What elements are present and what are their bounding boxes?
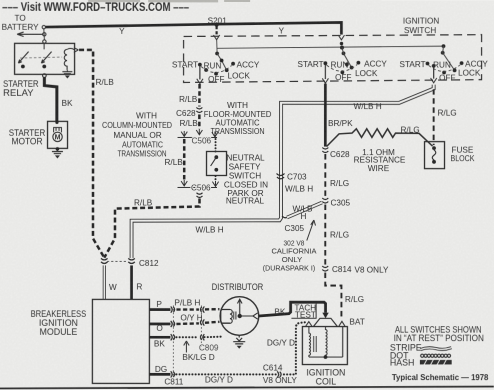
switch 2 START contact dot [323, 61, 327, 65]
C506 top bar left arrow [181, 131, 187, 136]
feed rail linking switch pivots [217, 46, 443, 48]
wire hash stub S201 down to switch [216, 26, 218, 35]
neutral safety switch box [207, 151, 227, 175]
arrow down into coil tower [322, 313, 328, 319]
switch 1 RUN contact dot [204, 68, 208, 72]
starter motor terminal dot [55, 121, 58, 124]
fuse bottom terminal dot [432, 160, 436, 164]
wire R/LG dashed center chain below C628 [324, 154, 326, 196]
connector C811 dotted vertical [172, 305, 174, 376]
pickup core marks [234, 311, 236, 319]
pointer arrow from California note to diagonal [307, 220, 316, 241]
V-merge chevrons at bottom of R/LB wires [101, 258, 108, 263]
switch section 1: stem from arrow to pivot [216, 40, 218, 54]
pickup winding bumps [230, 309, 232, 323]
starter motor brush bracket [54, 127, 62, 132]
switch 1 LOCK contact dot [225, 68, 229, 72]
switch 3 lever mid dot [441, 51, 445, 55]
fuse element squiggle [432, 150, 436, 160]
switch 2 OFF contact dot [340, 70, 344, 74]
switch 1 OFF contact dot [214, 72, 218, 76]
starter motor ground [52, 150, 63, 154]
wire BK/LG D dotted to distributor [176, 336, 223, 339]
dashed tie line to C812 [107, 260, 128, 262]
starter relay contact dot 1 [21, 65, 25, 69]
switch 3 output wire and arrow [433, 68, 435, 79]
switch 2 lever mid dot [342, 51, 346, 55]
coil right terminal triangle BAT [339, 321, 345, 326]
battery terminal circle lower [43, 40, 46, 43]
switch 3 LOCK contact dot [453, 68, 457, 72]
starter relay contact lever 2 [41, 52, 51, 63]
starter motor box [48, 121, 68, 148]
starter relay box [15, 43, 75, 74]
connector C628 chevrons on switch1 chain [196, 107, 202, 112]
switch 3 RUN contact dot [432, 64, 436, 68]
wire R/LB hash below switch 1 [198, 84, 201, 107]
switch section 3: pivot dot [442, 44, 446, 48]
wire R/LG dashed jog to ignition coil BAT [325, 273, 341, 320]
switch 1 detent arc dashed [201, 65, 232, 72]
wire dot pattern below NSS [215, 176, 217, 181]
starter relay coil ground [62, 70, 72, 74]
switch 2 pivot dot [340, 46, 344, 50]
breakerless ignition module box [92, 299, 149, 383]
connector chevrons below bottom bar [196, 193, 202, 198]
connector C305 chevrons on center chain [322, 198, 328, 203]
faint cut-off scan text at very top [88, 0, 250, 2]
starter motor M circle [53, 132, 62, 141]
starter motor bottom dot [56, 147, 60, 151]
switch section 2: dotted stem [340, 42, 343, 45]
starter relay contact lever 1 [18, 52, 28, 63]
switch 3 START contact dot [426, 62, 430, 66]
short link between terminals [43, 29, 46, 40]
coil bottom junction dot [324, 355, 328, 359]
starter relay linkage dashed [20, 57, 62, 58]
switch 3 ACCY contact dot [460, 61, 464, 65]
switch 3 detent arc dashed [429, 65, 461, 71]
arrow to battery (pointing left) [17, 32, 43, 36]
switch 3 OFF contact dot [442, 71, 446, 75]
wire R/LB hash from relay to merge: chevron at relay, horizontal, vertical [79, 50, 104, 258]
switch 1 output wire and arrow [199, 66, 201, 79]
neutral safety switch top dot [214, 155, 218, 159]
wire O/Y H hash to distributor [176, 322, 219, 324]
fuse block box [425, 142, 445, 169]
wire R/LG dashed to C814 [324, 205, 326, 265]
switch 3 lever [443, 46, 455, 70]
neutral safety switch bottom dot [214, 168, 218, 172]
splice S201 junction dot [214, 22, 218, 26]
connector C809 dotted vertical [200, 305, 202, 352]
C506 top bar right arrow [212, 131, 218, 136]
starter relay feed stub [43, 44, 45, 50]
starter relay contact dot 2 [42, 65, 46, 69]
ignition switch dashed box [184, 34, 482, 82]
wire DG/Y D dotted bottom run [176, 322, 305, 374]
wire R/LB left prong below top bar [183, 139, 186, 179]
reluctor line to right with arrowhead [242, 313, 258, 319]
wire R/LB hash to C506 [198, 114, 201, 129]
wire BK thick distributor to coil circuit [259, 302, 326, 316]
starter relay coil winding [64, 49, 67, 70]
switch 2 output wire and arrow [324, 65, 326, 79]
arrow into ignition switch section 2 [338, 35, 344, 40]
wire R thick down to module [130, 265, 133, 298]
resistance wire lead and zigzag [327, 129, 433, 147]
bottom rule [0, 386, 494, 389]
distributor circle [220, 297, 259, 336]
wire R/LB from C506 down and left to merge [104, 198, 199, 257]
TACH TEST box [291, 303, 316, 318]
distributor ground [233, 335, 245, 344]
coil bottom bus [309, 356, 343, 358]
wire BK relay to starter motor [44, 77, 57, 121]
wire dot pattern to neutral safety switch [215, 139, 217, 151]
wire Y thick from battery to ignition switch [46, 22, 342, 34]
arrow into C506 bottom bar right [212, 181, 218, 186]
distributor armature center dot [238, 314, 242, 318]
switch 1 lever dot [220, 59, 224, 63]
arrow into ignition switch section 1 [214, 35, 220, 40]
distributor shaft arrow up [237, 299, 242, 314]
coil secondary winding center [325, 326, 327, 357]
starter relay bottom terminal circle [43, 74, 47, 78]
switch 2 detent arc dashed [327, 65, 358, 72]
coil right lead from BAT [342, 326, 344, 357]
coil primary winding left [309, 326, 311, 357]
C811 chevrons on P O BK DG [171, 306, 175, 312]
connector C305 chevron at stripe corner [282, 216, 289, 218]
wire R/LG dashed right branch to fuse block [433, 89, 435, 145]
coil tower trapezoid [313, 318, 337, 326]
wire P/LB H hash to distributor [176, 308, 219, 311]
module pin P wire thick [150, 308, 171, 311]
C809 chevrons on P O BK [200, 306, 204, 312]
coil left terminal triangle [306, 322, 312, 326]
switch 2 LOCK contact dot [350, 66, 354, 70]
module pin BK wire thick [150, 336, 171, 339]
scan noise overlay [0, 0, 1, 1]
switch 2 lever [342, 48, 352, 68]
starter relay coil top hook to terminal [67, 48, 78, 53]
module pin O wire thick [150, 323, 171, 326]
connector C614 chevrons [277, 371, 281, 377]
ignition coil box [302, 327, 347, 365]
battery terminal circle mid [43, 33, 46, 36]
wire BR/PK thick from switch 2 down to C628 [324, 84, 327, 147]
switch 2 ACCY contact dot [356, 61, 360, 65]
coil core marks [314, 336, 317, 352]
wire W/LB H diagonal branch to R/LG (California) [287, 203, 322, 218]
switch 1 pivot dot [215, 52, 219, 56]
distributor pickup coil body [221, 309, 230, 323]
neutral safety switch lever [211, 157, 217, 166]
switch 1 lever [217, 53, 227, 70]
connector C628 chevrons on center chain [322, 148, 328, 153]
battery terminal circle top [42, 25, 45, 28]
connector C812 chevrons [128, 258, 135, 263]
wire BK/LG D label with arrow [184, 341, 189, 353]
module pin DG wire thick [150, 373, 170, 376]
switch 1 START contact dot [198, 63, 202, 67]
switch 2 RUN contact dot [345, 62, 349, 66]
arrow into C506 top bar [196, 129, 202, 135]
fuse top terminal dot [432, 146, 436, 150]
connector C814 chevrons [322, 266, 328, 271]
wire W/LB H stripe main run: from switch3 down, left, down, left to C812 [132, 84, 434, 258]
connector C506 bottom bar [178, 186, 218, 188]
connector C506 top bar [178, 136, 217, 138]
arrow into C506 bottom bar left [181, 180, 187, 186]
connector C703 chevron on stripe wire [277, 174, 285, 179]
wire W stripe down to module [103, 265, 106, 299]
switch 1 ACCY contact dot [231, 62, 235, 66]
